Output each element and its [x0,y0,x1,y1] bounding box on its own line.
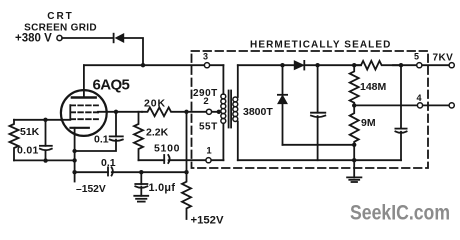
node cathode-0.1 return [72,149,76,153]
node cathode-left rail [72,158,76,162]
wire D2 to resistor [304,64,361,66]
hermetically sealed enclosure [192,51,429,168]
svg-text:0.01: 0.01 [17,145,39,157]
node 20K junction [184,110,188,114]
svg-text:SeekIC.com: SeekIC.com [350,202,450,225]
capacitor C3 [317,65,319,113]
transformer T1 primary winding [221,94,226,99]
wire plate rail to terminal 3 [84,64,224,66]
node 0.01 bottom junction [43,158,47,162]
node +152V junction [184,170,188,174]
wire grid input rail [14,119,62,121]
node 148M bottom [352,103,356,107]
resistor 20K [142,107,187,116]
wire screen lead [98,111,142,114]
wire D1 to corner [124,38,143,64]
svg-text:+380 V: +380 V [15,33,52,45]
transformer core [228,91,230,128]
capacitor 0.1 screen top lead [115,112,117,137]
capacitor 0.1 screen plates [110,135,123,137]
capacitor 0.1 rail plates [107,167,109,175]
wire primary top lead [222,65,224,94]
resistor to +152V [182,172,191,219]
svg-text:0.1: 0.1 [94,134,109,146]
resistor HV series [355,61,400,70]
wire HV bottom rail [238,159,401,161]
capacitor 1.0uf lead [140,172,142,184]
svg-text:4: 4 [416,93,421,103]
svg-text:5100: 5100 [154,143,180,155]
tube grid bracket [61,105,70,120]
capacitor 1.0uf plates [135,183,147,185]
capacitor C4 [400,65,402,128]
svg-text:HERMETICALLY SEALED: HERMETICALLY SEALED [250,40,391,51]
svg-text:51K: 51K [20,126,40,138]
svg-text:1: 1 [206,146,212,157]
wire left bottom rail [14,159,75,161]
node 148M junction [352,63,356,67]
svg-text:+152V: +152V [191,215,224,227]
wire HV top rail [238,64,294,66]
svg-text:290T: 290T [193,88,218,99]
tube grid row 1 [71,104,99,106]
terminal +380V [57,35,62,40]
ground below 1.0uf [140,187,142,196]
svg-text:20K: 20K [144,98,166,110]
node cap C3 junction [315,63,319,67]
capacitor 0.01 plates [40,145,52,147]
wire secondary top lead [237,65,239,97]
svg-text:CRT: CRT [47,11,74,22]
tube grid row 3 [71,118,99,120]
svg-text:5: 5 [414,52,419,62]
diode D2 [294,61,303,70]
wire -152V stub [74,172,76,181]
svg-text:6AQ5: 6AQ5 [93,77,130,94]
tube grid row 2 [71,111,99,113]
wire terminal 4 rail [354,104,449,106]
terminal 2 [206,109,211,114]
svg-text:9M: 9M [361,117,376,129]
wire secondary bottom lead [237,122,239,161]
node grid rail junction [43,118,47,122]
wire primary bottom lead [222,124,224,161]
resistor 9M [350,105,359,144]
wire bottom bias rail [75,171,187,173]
terminal 7KV [449,63,454,68]
node ground rail [352,158,356,162]
node D3 junction [280,63,284,67]
tube 6AQ5 envelope [61,90,107,136]
resistor 148M [350,65,359,105]
svg-text:3: 3 [203,52,208,62]
wire +380V to diode D1 [62,37,114,39]
svg-text:3800T: 3800T [243,106,273,118]
node winding tap [217,110,221,114]
wire 9M to ground rail [353,145,355,160]
node 1.0uf junction [139,170,143,174]
svg-text:2.2K: 2.2K [146,126,169,138]
node plate junction [141,63,145,67]
node screen junction [114,110,118,114]
terminal 5 [417,63,422,68]
resistor 2.2K [134,112,143,160]
capacitor 0.01 bottom lead [45,150,47,160]
resistor 51K [10,120,19,161]
svg-text:1.0μf: 1.0μf [149,182,176,194]
svg-text:–152V: –152V [76,184,106,195]
transformer T1 secondary winding [233,97,238,102]
tube plate [83,65,85,97]
terminal output 4 [449,103,454,108]
diode D1 [113,34,115,43]
capacitor 0.01 top lead [45,120,47,146]
ground in enclosure [353,160,355,177]
diode D3 [282,65,284,95]
wire 2.2K bottom to capacitor 5100 [139,159,165,161]
tube cathode [71,127,89,129]
node 9M bottom [352,143,356,147]
svg-text:148M: 148M [360,81,387,93]
capacitor 0.1 screen bottom lead [75,140,116,151]
wire resistor to 7KV [393,64,449,66]
svg-text:7KV: 7KV [433,53,454,64]
wire 5100 to terminal 1 [169,159,224,161]
node cathode-bottom rail [72,170,76,174]
wire D3 bottom to 9M bottom [283,144,355,146]
terminal 1 [206,158,211,163]
terminal 4 [417,103,422,108]
terminal 3 [204,63,209,68]
node 7KV column junction [399,63,403,67]
wire feedback vertical [186,112,188,172]
wire cathode lead [74,128,76,172]
svg-text:0.1: 0.1 [101,157,116,169]
capacitor 5100 plates [163,155,165,163]
svg-text:55T: 55T [199,121,218,132]
wire 20K to terminal 2 [187,111,221,113]
